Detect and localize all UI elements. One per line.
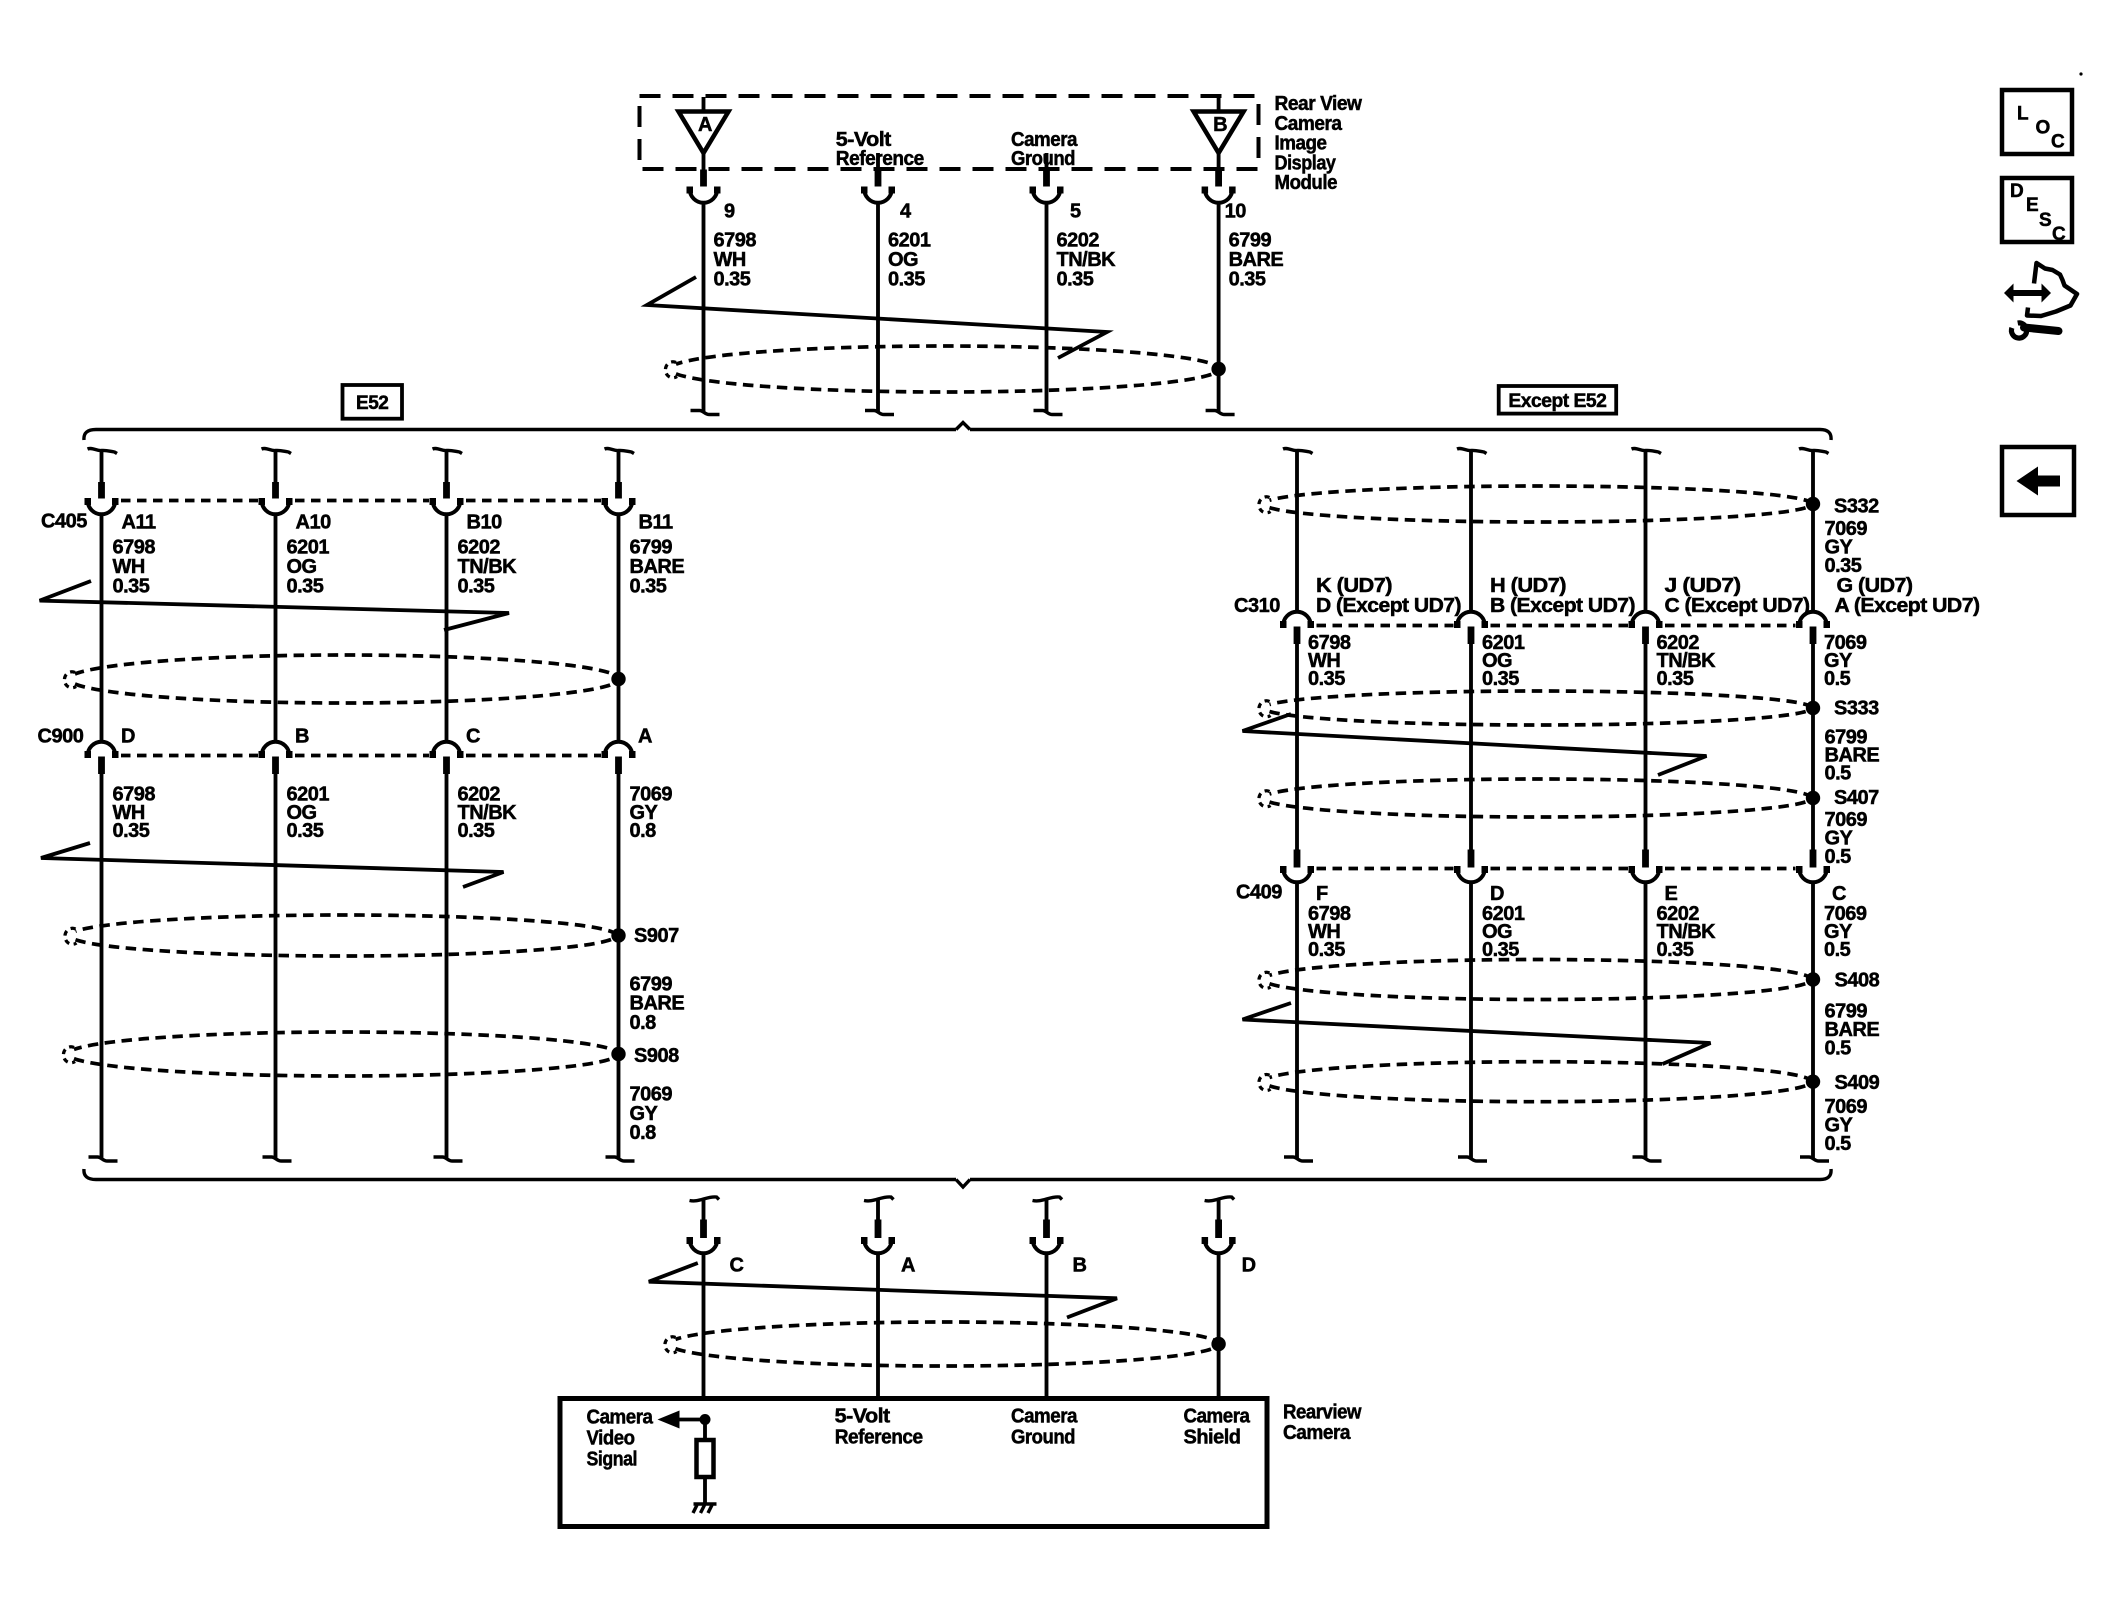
- splice S409 shield ellipse: [1270, 1062, 1812, 1102]
- svg-text:0.35: 0.35: [458, 820, 495, 842]
- svg-text:B: B: [295, 726, 309, 748]
- svg-text:S407: S407: [1834, 787, 1879, 809]
- svg-text:0.5: 0.5: [1825, 762, 1852, 784]
- Except-E52 harness wire 1 (6798): [1283, 448, 1313, 453]
- back-arrow navigation box: [2002, 447, 2074, 515]
- module connector pin 4 with wire 6201 OG: [876, 153, 880, 170]
- svg-text:D (Except UD7): D (Except UD7): [1316, 595, 1461, 617]
- svg-text:S332: S332: [1834, 496, 1879, 518]
- svg-text:0.35: 0.35: [1308, 668, 1345, 690]
- shield drain junction dot on wire B11: [611, 672, 625, 686]
- DESC navigation box: [2002, 178, 2072, 242]
- splice S907 dot: [611, 928, 625, 942]
- lower harness brace: [84, 1169, 956, 1180]
- svg-text:5-Volt: 5-Volt: [835, 1406, 891, 1428]
- shield drain junction dot on wire 10: [1211, 362, 1225, 376]
- svg-text:C: C: [730, 1255, 744, 1277]
- splice S407 shield ellipse: [1270, 779, 1812, 817]
- wire from resistor to ground: [703, 1477, 707, 1504]
- module connector pin 5 with wire 6202 TN/BK: [1045, 153, 1049, 170]
- svg-text:L: L: [2017, 103, 2029, 124]
- svg-text:S908: S908: [634, 1045, 679, 1067]
- svg-text:Rearview: Rearview: [1283, 1402, 1362, 1424]
- wire from junction to resistor: [703, 1420, 707, 1441]
- connector C405 dashed line: [121, 499, 258, 503]
- svg-text:B: B: [1213, 114, 1227, 136]
- stray print dot: [2079, 72, 2082, 75]
- svg-text:J (UD7): J (UD7): [1665, 575, 1741, 597]
- upper harness brace: [84, 430, 956, 441]
- svg-text:S907: S907: [634, 925, 679, 947]
- Except E52 label box: [1499, 386, 1617, 414]
- svg-text:0.35: 0.35: [1229, 269, 1266, 291]
- svg-text:O: O: [2036, 117, 2050, 138]
- svg-text:H (UD7): H (UD7): [1490, 575, 1566, 597]
- svg-text:Camera: Camera: [587, 1407, 654, 1429]
- svg-text:0.35: 0.35: [287, 576, 324, 598]
- svg-text:0.35: 0.35: [1825, 555, 1862, 577]
- svg-text:B (Except UD7): B (Except UD7): [1490, 595, 1635, 617]
- svg-text:0.5: 0.5: [1824, 939, 1851, 961]
- svg-text:0.5: 0.5: [1825, 1037, 1852, 1059]
- camera connector wire pin A: [864, 1197, 894, 1201]
- svg-text:D: D: [1490, 883, 1504, 905]
- svg-text:A: A: [901, 1255, 915, 1277]
- svg-text:0.8: 0.8: [630, 820, 657, 842]
- svg-text:C: C: [466, 726, 480, 748]
- svg-text:Module: Module: [1275, 172, 1338, 194]
- svg-text:0.35: 0.35: [458, 576, 495, 598]
- svg-text:0.35: 0.35: [1308, 939, 1345, 961]
- E52 harness wire 3 (6202): [433, 448, 463, 453]
- connector C900 dashed line: [121, 754, 258, 758]
- splice S332 dot: [1806, 497, 1820, 511]
- svg-text:Reference: Reference: [835, 1427, 923, 1449]
- diagnostic icon: wrench: [2011, 323, 2026, 338]
- twisted-pair arrow (E52 upper): [40, 581, 509, 630]
- splice S409 dot: [1806, 1075, 1820, 1089]
- shield ellipse (camera drain): [676, 1322, 1219, 1366]
- splice S908 shield ellipse: [74, 1032, 618, 1076]
- svg-text:E: E: [2026, 195, 2038, 216]
- module box: Rear View Camera Image Display Module (dashed outline): [640, 96, 1259, 169]
- connector C310 dashed line: [1317, 624, 1454, 628]
- twisted-pair arrow (Except-E52 upper): [1243, 714, 1707, 775]
- E52 label box: [343, 385, 403, 419]
- ground symbol (camera internal): [694, 1502, 717, 1505]
- twisted-pair arrow (camera wires): [649, 1263, 1117, 1318]
- splice S332 shield ellipse: [1270, 486, 1812, 522]
- splice S907 shield ellipse: [76, 915, 617, 956]
- svg-text:Signal: Signal: [587, 1449, 638, 1471]
- svg-text:0.8: 0.8: [630, 1012, 657, 1034]
- splice S408 shield ellipse: [1270, 960, 1812, 1000]
- svg-text:G (UD7): G (UD7): [1837, 575, 1913, 597]
- splice S408 dot: [1806, 972, 1820, 986]
- buffer amplifier triangle A (display module output): [702, 97, 706, 113]
- svg-text:C310: C310: [1234, 595, 1280, 617]
- Except-E52 harness wire 3 (6202): [1632, 448, 1662, 453]
- twisted-pair arrow (module wires): [647, 277, 1107, 358]
- svg-text:C: C: [2052, 224, 2066, 245]
- svg-text:0.8: 0.8: [630, 1122, 657, 1144]
- svg-text:Shield: Shield: [1184, 1427, 1241, 1449]
- svg-text:S333: S333: [1834, 698, 1879, 720]
- node: camera video junction dot: [700, 1414, 711, 1425]
- buffer amplifier triangle B (display module output): [1217, 97, 1221, 113]
- svg-text:Camera: Camera: [1275, 113, 1343, 135]
- svg-text:0.5: 0.5: [1825, 846, 1852, 868]
- svg-text:A: A: [698, 114, 712, 136]
- svg-text:0.35: 0.35: [630, 576, 667, 598]
- splice S333 dot: [1806, 701, 1820, 715]
- svg-text:Camera: Camera: [1011, 1406, 1078, 1428]
- svg-text:Image: Image: [1275, 133, 1327, 155]
- svg-text:0.35: 0.35: [888, 269, 925, 291]
- resistor (video termination): [697, 1440, 714, 1477]
- svg-text:0.35: 0.35: [113, 576, 150, 598]
- svg-text:C409: C409: [1236, 882, 1282, 904]
- svg-text:B10: B10: [467, 512, 503, 534]
- svg-text:0.35: 0.35: [1657, 668, 1694, 690]
- Rearview Camera box: [560, 1399, 1267, 1527]
- svg-text:Rear View: Rear View: [1275, 93, 1363, 115]
- LOC navigation box: [2002, 90, 2072, 154]
- svg-text:Camera: Camera: [1184, 1406, 1251, 1428]
- svg-text:S408: S408: [1835, 969, 1880, 991]
- diagnostic icon: curved arrow outline: [2027, 263, 2077, 316]
- diagnostic icon: double-headed arrow: [2004, 284, 2051, 303]
- svg-text:F: F: [1316, 883, 1328, 905]
- svg-text:5: 5: [1070, 201, 1081, 223]
- svg-text:C405: C405: [41, 511, 87, 533]
- svg-text:Except E52: Except E52: [1508, 391, 1606, 412]
- Except-E52 harness wire 2 (6201): [1457, 448, 1487, 453]
- module connector pin 10 with wire 6799 BARE: [1217, 153, 1221, 170]
- svg-text:0.35: 0.35: [1482, 939, 1519, 961]
- splice S333 shield ellipse: [1270, 691, 1812, 725]
- svg-text:E52: E52: [356, 393, 388, 414]
- svg-text:4: 4: [900, 201, 912, 223]
- E52 harness wire 4 (6799): [605, 448, 635, 453]
- svg-text:S: S: [2039, 210, 2051, 231]
- svg-text:B11: B11: [639, 512, 673, 534]
- splice S908 dot: [611, 1047, 625, 1061]
- svg-text:Camera: Camera: [1283, 1422, 1351, 1444]
- svg-text:10: 10: [1225, 201, 1247, 223]
- svg-text:A (Except UD7): A (Except UD7): [1835, 595, 1980, 617]
- svg-text:9: 9: [724, 201, 735, 223]
- E52 harness wire 2 (6201): [262, 448, 292, 453]
- svg-text:0.5: 0.5: [1824, 668, 1851, 690]
- Except-E52 harness wire 4 (7069): [1799, 448, 1829, 453]
- module connector pin 9 with wire 6798 WH: [702, 153, 706, 170]
- svg-text:0.35: 0.35: [287, 820, 324, 842]
- camera connector wire pin D: [1205, 1197, 1235, 1201]
- svg-text:B: B: [1073, 1255, 1087, 1277]
- svg-text:Reference: Reference: [836, 148, 924, 170]
- svg-text:D: D: [2010, 181, 2023, 202]
- camera video signal output arrow: [676, 1418, 705, 1422]
- svg-text:K (UD7): K (UD7): [1316, 575, 1392, 597]
- svg-text:Display: Display: [1275, 152, 1337, 174]
- svg-text:0.35: 0.35: [1657, 939, 1694, 961]
- svg-text:0.35: 0.35: [1057, 269, 1094, 291]
- twisted-pair arrow (Except-E52 lower): [1243, 1003, 1711, 1064]
- svg-text:0.5: 0.5: [1825, 1133, 1852, 1155]
- svg-text:C: C: [1832, 883, 1846, 905]
- connector C409 dashed line: [1317, 867, 1454, 871]
- svg-text:0.35: 0.35: [714, 269, 751, 291]
- camera connector wire pin B: [1033, 1197, 1063, 1201]
- svg-text:D: D: [121, 726, 135, 748]
- svg-text:S409: S409: [1835, 1072, 1880, 1094]
- svg-text:Ground: Ground: [1011, 148, 1075, 170]
- E52 harness wire 1 (6798): [88, 448, 118, 453]
- shield drain junction dot on wire D: [1211, 1337, 1225, 1351]
- svg-text:D: D: [1242, 1255, 1256, 1277]
- svg-text:C900: C900: [38, 726, 84, 748]
- svg-text:0.35: 0.35: [113, 820, 150, 842]
- svg-text:0.35: 0.35: [1482, 668, 1519, 690]
- svg-text:A: A: [638, 726, 652, 748]
- svg-text:Ground: Ground: [1011, 1427, 1075, 1449]
- svg-text:Video: Video: [587, 1428, 635, 1450]
- svg-text:C (Except UD7): C (Except UD7): [1665, 595, 1810, 617]
- svg-text:A10: A10: [296, 512, 332, 534]
- shield ellipse (module drain wire): [676, 346, 1219, 392]
- svg-text:E: E: [1665, 883, 1678, 905]
- shield ellipse (E52 upper drain): [75, 655, 619, 703]
- twisted-pair arrow (E52 lower): [41, 843, 504, 887]
- svg-text:C: C: [2051, 131, 2065, 152]
- splice S407 dot: [1806, 791, 1820, 805]
- camera connector wire pin C: [690, 1197, 720, 1201]
- svg-text:A11: A11: [122, 512, 156, 534]
